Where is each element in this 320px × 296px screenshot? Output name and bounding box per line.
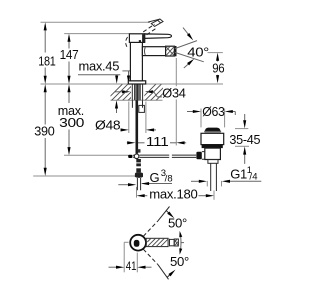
svg-text:max.45: max.45 [79,59,120,74]
svg-text:max.180: max.180 [149,186,197,201]
svg-text:G1: G1 [230,167,247,182]
svg-text:147: 147 [60,47,79,62]
svg-text:Ø34: Ø34 [162,86,185,101]
svg-text:40°: 40° [187,45,209,60]
svg-text:Ø63: Ø63 [202,104,224,119]
svg-text:96: 96 [212,60,224,75]
svg-text:G: G [150,170,160,185]
svg-text:35-45: 35-45 [229,132,260,147]
svg-text:8: 8 [167,173,172,184]
svg-text:50°: 50° [170,254,189,269]
svg-text:181: 181 [38,53,55,68]
svg-text:390: 390 [34,124,54,139]
svg-text:50°: 50° [168,215,187,230]
svg-text:Ø48: Ø48 [95,118,120,133]
svg-text:41: 41 [126,259,137,273]
svg-text:300: 300 [59,115,84,130]
svg-text:4: 4 [252,172,257,183]
svg-text:111: 111 [146,134,169,149]
